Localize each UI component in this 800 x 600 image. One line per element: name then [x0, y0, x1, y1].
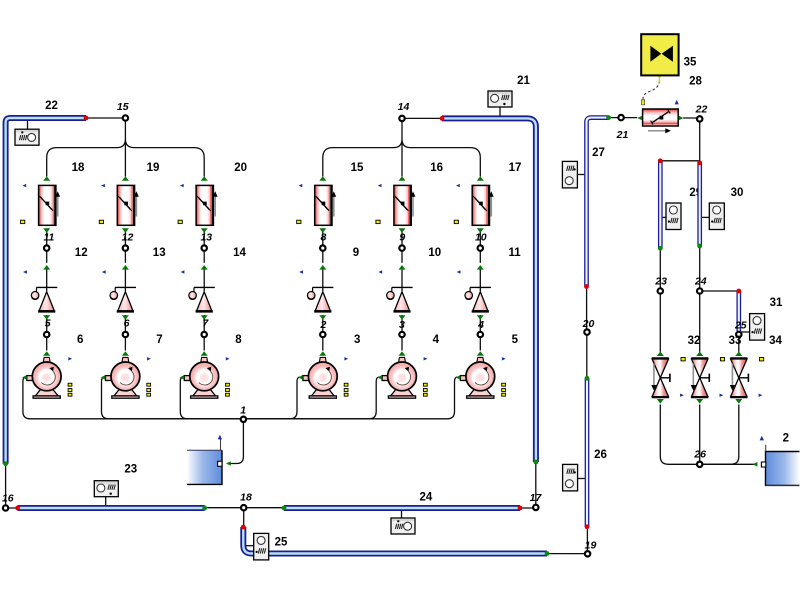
node label 1	[240, 405, 246, 417]
pipe endpoint (red)	[736, 289, 741, 294]
svg-text:13: 13	[200, 231, 212, 243]
node 13	[202, 245, 207, 250]
control valve 33	[730, 351, 749, 403]
node 5	[44, 332, 49, 337]
wire node 24 to pipe 31	[700, 290, 739, 292]
valve 16	[394, 176, 416, 233]
valve 16 data marker	[376, 220, 380, 223]
svg-text:8: 8	[320, 231, 326, 243]
wire check valve to node, column x=46.7	[46, 315, 48, 351]
tank 23	[187, 439, 222, 485]
svg-text:8: 8	[235, 334, 242, 346]
valve 28 marker (blue)	[675, 100, 679, 105]
svg-text:32: 32	[688, 335, 701, 347]
control valve 32 flow marker	[680, 394, 684, 397]
valve 19 flow marker	[101, 184, 105, 187]
valve 20 flow marker	[180, 184, 184, 187]
label 23	[124, 464, 137, 476]
node label 21	[616, 129, 629, 141]
control valve 32b flow marker	[720, 394, 724, 397]
wire node 1 to tank 23	[229, 419, 244, 464]
svg-text:9: 9	[399, 231, 405, 243]
svg-text:1: 1	[240, 405, 246, 417]
check valve 10 flow marker	[378, 270, 382, 273]
wire valve to node, column x=204.2	[203, 230, 205, 263]
svg-text:26: 26	[594, 449, 607, 461]
pipe endpoint (green)	[585, 376, 590, 381]
node 16	[3, 505, 8, 510]
node 23	[658, 288, 663, 293]
label 15	[351, 162, 364, 174]
gauge stem pipe 22	[27, 121, 29, 130]
gauge 30 on pipe 30	[709, 203, 724, 230]
gauge on pipe 24	[391, 518, 415, 534]
svg-text:15: 15	[117, 101, 129, 113]
wire node14 to pipe21	[402, 117, 442, 119]
svg-text:16: 16	[2, 493, 14, 505]
svg-text:20: 20	[582, 318, 595, 330]
label 2	[783, 433, 789, 445]
svg-text:31: 31	[770, 297, 783, 309]
pump 4	[377, 351, 416, 398]
svg-text:15: 15	[351, 162, 364, 174]
node label 14	[398, 101, 410, 113]
svg-text:24: 24	[420, 492, 433, 504]
node label 26	[693, 449, 706, 461]
label 22	[45, 100, 58, 112]
wire check valve to node, column x=402.0	[401, 315, 403, 351]
node label 20	[582, 318, 595, 330]
pump 8	[180, 351, 219, 398]
wire node 20 connections	[586, 287, 588, 379]
control valve 33 flow marker	[759, 394, 763, 397]
pipe endpoint (red)	[585, 524, 590, 529]
svg-text:35: 35	[684, 56, 697, 68]
pump 8 flow marker	[226, 357, 230, 360]
svg-text:14: 14	[398, 101, 410, 113]
svg-text:10: 10	[428, 247, 441, 259]
label 12	[75, 247, 88, 259]
wire node 18 connections	[205, 508, 284, 527]
pipe 26	[585, 378, 590, 527]
svg-text:28: 28	[689, 75, 702, 87]
pump 7	[101, 351, 140, 398]
label 9	[353, 247, 359, 259]
label 21	[517, 75, 530, 87]
label 13	[153, 247, 166, 259]
pump 6 flow marker	[68, 357, 72, 360]
svg-text:17: 17	[530, 492, 543, 504]
svg-text:5: 5	[512, 334, 519, 346]
node 3	[399, 332, 404, 337]
wire fan node 15	[47, 121, 205, 177]
pump 7 data markers	[147, 383, 151, 396]
check valve 14	[189, 265, 215, 320]
node label 13	[200, 231, 212, 243]
svg-text:20: 20	[234, 162, 247, 174]
svg-text:7: 7	[202, 317, 209, 329]
svg-text:18: 18	[240, 492, 252, 504]
svg-text:6: 6	[77, 334, 83, 346]
node label 17	[530, 492, 543, 504]
node label 11	[43, 231, 54, 243]
valve 18 data marker	[21, 220, 25, 223]
node label 24	[694, 276, 707, 288]
label 29	[689, 187, 702, 199]
pump 6 data markers	[68, 383, 72, 396]
svg-text:4: 4	[433, 334, 440, 346]
gauge on pipe 26	[563, 464, 578, 491]
control valve 33 data marker	[760, 358, 764, 361]
valve 15 flow marker	[299, 184, 303, 187]
node 26	[697, 462, 702, 467]
node label 23	[654, 276, 667, 288]
wire node 24 to valve 32b	[699, 292, 701, 352]
svg-text:11: 11	[509, 247, 522, 259]
node label 3	[399, 319, 405, 331]
tank 2 level marker	[760, 436, 764, 441]
wire node 25 to valve 33	[738, 334, 740, 352]
pump 8 data markers	[226, 383, 230, 396]
label 3	[354, 334, 360, 346]
label 27	[592, 147, 605, 159]
pipe 24	[284, 505, 520, 511]
wire pump outlet 6	[23, 377, 244, 419]
pipe 27	[587, 118, 609, 287]
control valve 32b data marker	[720, 358, 724, 361]
gauge stem pipe 23	[105, 497, 107, 505]
pump 3	[298, 351, 337, 398]
gauge stem pipe 26	[578, 478, 585, 480]
check valve 12	[31, 265, 57, 320]
label 35	[684, 56, 697, 68]
pipe endpoint (red)	[241, 525, 246, 530]
label 17	[509, 162, 522, 174]
pipe 22	[6, 118, 86, 464]
pipe endpoint (red)	[584, 284, 589, 289]
gauge stem pipe 21	[499, 107, 501, 116]
node label 12	[122, 231, 134, 243]
svg-text:22: 22	[45, 100, 58, 112]
node label 10	[475, 231, 487, 243]
wire node 21 connections	[609, 117, 638, 119]
node label 15	[117, 101, 129, 113]
svg-text:24: 24	[694, 276, 707, 288]
node 8	[320, 245, 325, 250]
svg-text:3: 3	[399, 319, 405, 331]
pump 4 flow marker	[424, 357, 428, 360]
svg-text:11: 11	[43, 231, 54, 243]
node label 18	[240, 492, 252, 504]
pipe endpoint (green)	[534, 460, 539, 465]
svg-text:19: 19	[585, 539, 597, 551]
tank 23 level marker	[218, 435, 222, 440]
pump 3 data markers	[344, 383, 348, 396]
check valve 9	[307, 265, 333, 320]
node label 8	[320, 231, 326, 243]
valve 17	[472, 176, 494, 233]
node 19	[585, 551, 590, 556]
label 11	[509, 247, 522, 259]
svg-text:34: 34	[769, 335, 782, 347]
pipe endpoint (red)	[518, 506, 523, 511]
svg-text:23: 23	[654, 276, 667, 288]
wire valve to node, column x=46.7	[46, 230, 48, 263]
valve 20 data marker	[178, 220, 182, 223]
gauge stem pipe 27	[577, 174, 584, 176]
svg-text:18: 18	[72, 162, 85, 174]
node 15	[123, 115, 128, 120]
pump 5 flow marker	[502, 357, 506, 360]
valve 28 direction arrow	[648, 128, 671, 133]
valve 15 data marker	[297, 220, 301, 223]
pipe endpoint (green)	[282, 506, 287, 511]
check valve 11 flow marker	[457, 270, 461, 273]
svg-text:13: 13	[153, 247, 166, 259]
label 10	[428, 247, 441, 259]
label 20	[234, 162, 247, 174]
valve 18	[39, 176, 61, 233]
node 6	[123, 332, 128, 337]
valve 28 control port (yellow)	[642, 100, 645, 105]
svg-text:5: 5	[45, 317, 51, 329]
pipe endpoint (red)	[15, 506, 20, 511]
label 14	[233, 247, 246, 259]
check valve 13 flow marker	[102, 270, 106, 273]
wire check valve to node, column x=204.2	[203, 315, 205, 351]
gauge on pipe 27	[562, 161, 577, 188]
node 7	[202, 332, 207, 337]
pipe endpoint (red)	[658, 158, 663, 163]
gauge stem pipe 31	[741, 331, 749, 333]
pipe endpoint (red)	[440, 116, 445, 121]
valve 19 data marker	[99, 220, 103, 223]
check valve 9 flow marker	[299, 270, 303, 273]
svg-text:23: 23	[124, 464, 137, 476]
node label 4	[477, 319, 484, 331]
node label 16	[2, 493, 14, 505]
wire pump outlet 5	[243, 377, 457, 419]
svg-text:2: 2	[319, 319, 326, 331]
label 4	[433, 334, 440, 346]
wire node 17 connections	[520, 462, 536, 508]
node label 7	[202, 317, 209, 329]
pipe 25 (node 18 to node 19)	[243, 527, 547, 554]
label 31	[770, 297, 783, 309]
svg-text:30: 30	[731, 187, 744, 199]
wire control valves to node 26	[660, 405, 739, 465]
wire node 23 to valve 32	[659, 292, 661, 352]
node label 5	[45, 317, 51, 329]
pipe endpoint (green)	[658, 246, 663, 251]
svg-text:19: 19	[147, 162, 160, 174]
label 34	[769, 335, 782, 347]
controller 35 (yellow box)	[641, 34, 678, 75]
gauge on pipe 22	[15, 129, 39, 145]
svg-text:4: 4	[477, 319, 484, 331]
wire valve to node, column x=402.0	[401, 230, 403, 263]
label 33	[729, 335, 742, 347]
wire valve to node, column x=480.3	[479, 230, 481, 263]
svg-text:25: 25	[275, 537, 288, 549]
wire valve to node, column x=322.8	[322, 230, 324, 263]
label 6	[77, 334, 83, 346]
svg-text:6: 6	[124, 317, 130, 329]
label 8	[235, 334, 242, 346]
check valve 14 flow marker	[181, 270, 185, 273]
svg-text:33: 33	[729, 335, 742, 347]
svg-text:10: 10	[475, 231, 487, 243]
gauge 34 on pipe 31	[750, 314, 765, 341]
label 30	[731, 187, 744, 199]
tank 23 inlet arrow	[226, 461, 231, 466]
gauge stem 25	[246, 545, 254, 547]
wire check valve to node, column x=480.3	[479, 315, 481, 351]
pipe endpoint (green)	[545, 551, 550, 556]
pipe 21	[442, 118, 536, 462]
svg-text:21: 21	[517, 75, 530, 87]
node label 22	[695, 103, 708, 115]
svg-text:21: 21	[616, 129, 629, 141]
valve 15	[315, 176, 337, 233]
node label 6	[124, 317, 130, 329]
gauge 21 on pipe 21	[488, 91, 512, 107]
node 24	[697, 288, 702, 293]
node label 2	[319, 319, 326, 331]
gauge stem pipe 24	[401, 511, 403, 518]
svg-text:7: 7	[156, 334, 162, 346]
valve 19	[117, 176, 139, 233]
svg-text:17: 17	[509, 162, 522, 174]
svg-text:25: 25	[734, 319, 747, 331]
valve 18 flow marker	[22, 184, 26, 187]
node 22	[697, 116, 702, 121]
control valve 32b	[691, 351, 710, 403]
pipe 31	[736, 291, 741, 331]
wire node 19 connections	[547, 527, 588, 554]
pump 7 flow marker	[147, 357, 151, 360]
wire valve 28 to node 22	[683, 117, 700, 119]
node 12	[123, 245, 128, 250]
label 7	[156, 334, 162, 346]
node label 25	[734, 319, 747, 331]
gauge on pipe 29	[666, 203, 681, 230]
pump 5	[456, 351, 495, 398]
wire node 26 to tank 2	[700, 463, 756, 465]
node label 9	[399, 231, 405, 243]
valve 17 data marker	[454, 220, 458, 223]
label 24	[420, 492, 433, 504]
node 17	[533, 505, 538, 510]
pump 3 flow marker	[344, 357, 348, 360]
valve 20	[196, 176, 218, 233]
svg-text:26: 26	[693, 449, 706, 461]
wire pump outlet 3	[243, 377, 299, 419]
label 32	[688, 335, 701, 347]
tank 2	[761, 445, 799, 486]
svg-text:2: 2	[783, 433, 789, 445]
pipe endpoint (red)	[84, 116, 89, 121]
node label 19	[585, 539, 597, 551]
check valve 11	[465, 265, 491, 320]
wire valve to node, column x=125.4	[124, 230, 126, 263]
wire pump outlet 4	[243, 377, 378, 419]
gauge 23 on pipe 23	[94, 481, 118, 497]
pump 6	[22, 351, 61, 398]
wire node15 to pipe22	[86, 117, 125, 119]
pipe endpoint (red)	[697, 160, 702, 165]
gauge stem pipe 30	[702, 216, 709, 218]
pipe endpoint (green)	[202, 506, 207, 511]
pipe endpoint (green)	[3, 461, 8, 466]
valve 16 flow marker	[378, 184, 382, 187]
check valve 12 flow marker	[23, 270, 27, 273]
valve 17 flow marker	[456, 184, 460, 187]
wire node 22 branch	[660, 119, 699, 163]
pipe 30	[697, 163, 702, 246]
label 19	[147, 162, 160, 174]
dashed control link valve 35 to valve 28	[643, 75, 662, 100]
wire pump outlet 8	[180, 377, 243, 419]
pump 5 data markers	[502, 383, 506, 396]
wire pipe 29 to node 23	[659, 248, 661, 290]
node 14	[399, 116, 404, 121]
svg-text:3: 3	[354, 334, 360, 346]
node 18	[241, 505, 246, 510]
svg-text:22: 22	[695, 103, 708, 115]
label 16	[430, 162, 443, 174]
svg-text:14: 14	[233, 247, 246, 259]
pipe 29	[658, 161, 663, 249]
wire node 16	[6, 464, 18, 508]
gauge 25	[254, 533, 269, 560]
pipe endpoint (green)	[697, 244, 702, 249]
node 2	[320, 332, 325, 337]
gauge stem pipe 29	[663, 216, 666, 218]
node 9	[399, 245, 404, 250]
tank 2 inlet arrow	[753, 462, 758, 467]
label 5	[512, 334, 519, 346]
node 25	[736, 332, 741, 337]
svg-text:9: 9	[353, 247, 359, 259]
label 18	[72, 162, 85, 174]
pipe endpoint (green)	[606, 115, 611, 120]
control valve 32 data marker	[681, 358, 685, 361]
node 4	[478, 332, 483, 337]
wire pump outlet 7	[102, 377, 244, 419]
label 28	[689, 75, 702, 87]
check valve 13	[110, 265, 136, 320]
label 25	[275, 537, 288, 549]
label 26	[594, 449, 607, 461]
valve 28	[637, 109, 683, 126]
node 20	[584, 329, 589, 334]
wire pipe 30 to node 24	[699, 246, 701, 290]
control valve 32	[651, 351, 670, 403]
pump 4 data markers	[423, 383, 427, 396]
node 10	[478, 245, 483, 250]
svg-text:27: 27	[592, 147, 605, 159]
svg-text:12: 12	[122, 231, 134, 243]
wire check valve to node, column x=322.8	[322, 315, 324, 351]
check valve 10	[387, 265, 413, 320]
node 1	[241, 417, 246, 422]
svg-text:12: 12	[75, 247, 88, 259]
pipe 23	[18, 505, 205, 511]
wire fan node 14	[323, 121, 481, 177]
svg-text:16: 16	[430, 162, 443, 174]
node 11	[44, 245, 49, 250]
